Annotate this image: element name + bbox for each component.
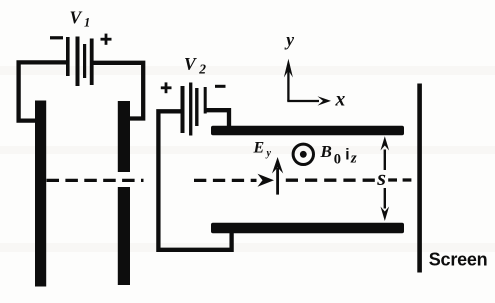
- deflection plate top: [211, 126, 404, 135]
- wire V2 right to top plate: [207, 110, 230, 127]
- svg-text:0: 0: [334, 152, 341, 168]
- beam dashed line segment 3: [286, 179, 378, 182]
- svg-text:V: V: [184, 54, 197, 74]
- beam dashed line segment 2: [194, 179, 257, 182]
- wire V1 left loop: [19, 62, 66, 120]
- E-field arrow: [272, 157, 283, 195]
- faint scan band 2: [0, 146, 495, 154]
- svg-text:V: V: [70, 8, 83, 28]
- polarity minus V1: [50, 36, 63, 39]
- svg-text:1: 1: [84, 16, 90, 30]
- svg-text:x: x: [335, 90, 346, 111]
- svg-text:s: s: [376, 165, 386, 190]
- faint scan band 1: [0, 66, 495, 75]
- beam dashed line segment 4: [388, 178, 411, 181]
- svg-text:E: E: [253, 139, 265, 156]
- svg-text:z: z: [350, 150, 357, 166]
- wire V1 right loop: [92, 63, 143, 119]
- polarity minus V2: [215, 85, 226, 88]
- svg-text:i: i: [345, 147, 349, 164]
- axis y arrow: [284, 59, 293, 101]
- screen line: [417, 84, 422, 273]
- battery V1: [68, 37, 92, 87]
- polarity plus V1: [101, 34, 112, 45]
- svg-text:Screen: Screen: [429, 249, 488, 269]
- faint scan band 3: [0, 243, 495, 252]
- beam dashed line segment 1: [47, 179, 144, 182]
- dimension arrow s (top half): [381, 136, 390, 170]
- wire V2 left loop to bottom plate: [158, 111, 231, 250]
- deflection plate bottom: [211, 223, 404, 233]
- battery V2: [183, 83, 206, 136]
- dimension arrow s (bottom half): [381, 188, 390, 221]
- electrode plate right upper (aperture above beam): [118, 101, 130, 172]
- svg-text:y: y: [266, 148, 272, 159]
- beam arrowhead: [258, 174, 275, 187]
- svg-text:B: B: [320, 142, 332, 161]
- svg-text:y: y: [284, 30, 294, 50]
- B-field symbol (dot in circle): [293, 144, 313, 164]
- polarity plus V2: [161, 82, 172, 93]
- electrode plate left: [35, 101, 46, 287]
- svg-text:2: 2: [198, 62, 206, 77]
- electrode plate right lower (aperture below beam): [118, 187, 130, 285]
- axis x arrow: [287, 96, 331, 105]
